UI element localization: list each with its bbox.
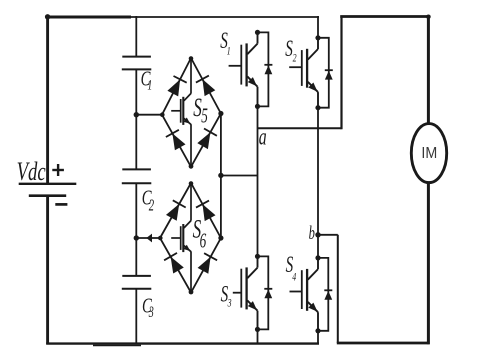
wire: bottom-right thick to motor (337, 342, 430, 345)
S2 top node (315, 35, 320, 40)
S1 bottom node (255, 104, 260, 109)
S4 bottom node (315, 328, 320, 333)
capacitor C1 (122, 56, 151, 58)
S4 gate bar (301, 270, 303, 309)
wire: left DC rail upper (46, 16, 49, 184)
battery Vdc negative plate (29, 194, 66, 197)
S4 emitter arrow (308, 303, 317, 312)
diamond bridge 2 edges (160, 183, 221, 293)
battery plus sign (52, 169, 64, 171)
node: bridge output junction (218, 173, 223, 178)
S4 collector stub (317, 258, 319, 269)
S3 freewheel diode (264, 288, 272, 290)
S1 freewheel diode (264, 64, 272, 66)
wire: node-a line (258, 127, 342, 129)
S2 emitter stub (317, 92, 319, 108)
S5 emitter arrow (183, 118, 190, 124)
S2 gate lead (289, 66, 302, 68)
svg-text:b: b (309, 224, 315, 244)
S5 gate bar (180, 99, 182, 123)
bridge1 diode right-top (202, 79, 215, 96)
wire: top rail thick segment (46, 16, 131, 19)
node: cap tap node 1 (134, 112, 139, 117)
wire: tap2 to diamond2 left vertex (136, 237, 160, 239)
S6 emitter arrow (183, 245, 190, 251)
svg-text:1: 1 (227, 45, 231, 58)
bridge1 vertex dots (189, 56, 194, 61)
S3 emitter slant (247, 300, 257, 310)
S3 collector slant (247, 268, 257, 279)
S3 body bar (245, 267, 247, 309)
S2 collector slant (308, 49, 318, 60)
wire: cap chain C1-C2 (135, 69, 137, 169)
node b (315, 232, 320, 237)
wire: right rail lower (motor return) (427, 182, 430, 345)
S6 body bar (182, 224, 184, 252)
S3 gate bar (240, 269, 242, 308)
S2 freewheel diode branch (318, 38, 329, 108)
S1 emitter slant (247, 76, 257, 86)
wire: capacitor chain top feed (135, 16, 137, 57)
S5 emitter slant (184, 118, 191, 124)
motor IM circle (411, 124, 446, 183)
wire: top rail thin segment to S2 leg (130, 16, 319, 18)
S4 freewheel diode branch (318, 258, 328, 331)
bridge2 center link bottom (190, 251, 192, 292)
S6 emitter slant (184, 246, 191, 252)
S6 gate bar (180, 226, 182, 250)
wire: cap chain C2-C3 (135, 183, 137, 276)
wire: phase-A column bottom (S3 to bottom rail) (257, 329, 259, 344)
svg-text:2: 2 (293, 52, 297, 65)
S5 collector slant (184, 93, 191, 100)
capacitor C2 (122, 168, 151, 170)
svg-text:4: 4 (292, 271, 296, 284)
S3 emitter arrow (248, 301, 257, 310)
S1 collector slant (247, 44, 257, 55)
battery minus sign (55, 203, 67, 206)
S1 freewheel diode branch (258, 32, 269, 106)
svg-text:5: 5 (201, 103, 208, 127)
node: cap tap node 2 (134, 235, 139, 240)
S4 top node (315, 255, 320, 260)
wire: phase-A column mid (S1 emitter to S3 collector) (257, 106, 259, 256)
svg-text:1: 1 (147, 76, 152, 93)
svg-text:Vdc: Vdc (17, 157, 46, 186)
bridge1 diode left-top (167, 79, 180, 96)
bridge2 diode right-bottom (198, 257, 211, 274)
S2 gate bar (301, 50, 303, 86)
wire: bottom rail thick blur (93, 344, 141, 346)
current arrow on tap2 wire (146, 234, 152, 243)
S1 collector stub (257, 32, 259, 43)
wire: bridge right vertical x=221 (220, 114, 222, 239)
S2 collector stub (317, 38, 319, 49)
S3 freewheel diode branch (258, 256, 269, 329)
svg-text:IM: IM (421, 145, 437, 162)
S1 gate lead (229, 65, 242, 67)
S4 emitter slant (308, 302, 318, 312)
S2 body bar (306, 49, 308, 88)
svg-text:a: a (259, 124, 267, 150)
S3 gate lead (233, 292, 242, 294)
diamond bridge 1 edges (162, 58, 221, 167)
wire: vertical from top-right to node-a (340, 17, 342, 130)
S1 emitter arrow (248, 77, 257, 86)
battery Vdc positive plate (19, 183, 77, 185)
bridge2 diode left-bottom (171, 257, 184, 274)
wire: right rail upper (motor feed) (427, 17, 430, 125)
bridge2 diode right-top (203, 204, 216, 221)
S3 emitter stub (257, 311, 259, 330)
svg-text:2: 2 (149, 196, 154, 215)
S5 gate lead (171, 110, 181, 112)
wire: bottom rail (46, 342, 319, 344)
node: top-left corner junction (45, 14, 50, 19)
wire: bridge output to phase column (221, 175, 258, 177)
S6 collector slant (184, 221, 191, 228)
S2 freewheel diode (325, 69, 333, 71)
S4 collector slant (308, 269, 318, 280)
bridge2 diode left-top (166, 204, 179, 221)
wire: b drop vertical (337, 235, 339, 343)
svg-text:3: 3 (227, 297, 232, 310)
S1 gate bar (240, 45, 242, 85)
node: top-right corner (426, 14, 431, 19)
wire: node-b to right drop (318, 234, 338, 236)
S4 freewheel diode (324, 289, 332, 291)
S4 emitter stub (317, 312, 319, 331)
bridge1 diode left-bottom (172, 133, 185, 150)
S4 body bar (306, 269, 308, 311)
bridge1 center link bottom (190, 124, 192, 167)
S3 collector stub (257, 256, 259, 267)
svg-text:S: S (193, 92, 202, 122)
wire: top-right thick to motor (340, 15, 429, 18)
S4 gate lead (290, 291, 302, 293)
S2 emitter arrow (308, 83, 317, 92)
bridge1 center link top (190, 58, 192, 94)
S3 bottom node (255, 327, 260, 332)
bridge2 vertex dots (189, 181, 194, 186)
wire: left DC rail lower (46, 196, 49, 345)
S1 body bar (245, 43, 247, 86)
svg-text:S: S (285, 37, 293, 62)
wire: phase-B column mid (S2 emitter to S4 collector) (317, 108, 319, 258)
bridge2 center link top (190, 183, 192, 221)
wire: phase-B column bottom (S4 to bottom rail) (317, 331, 319, 344)
S1 emitter stub (257, 87, 259, 107)
capacitor C3 (122, 275, 151, 277)
wire: S2 top feed from top rail (317, 16, 319, 38)
S1 top node (255, 30, 260, 35)
wire: tap1 to diamond1 left vertex (136, 114, 162, 116)
bridge1 diode right-bottom (197, 132, 210, 149)
S2 emitter slant (308, 82, 318, 92)
wire: cap chain C3 to bottom rail (135, 289, 137, 344)
S5 body bar (182, 97, 184, 125)
S3 top node (255, 254, 260, 259)
svg-text:3: 3 (148, 303, 154, 321)
S2 bottom node (315, 105, 320, 110)
svg-text:6: 6 (200, 228, 207, 252)
S6 gate lead (171, 237, 181, 239)
